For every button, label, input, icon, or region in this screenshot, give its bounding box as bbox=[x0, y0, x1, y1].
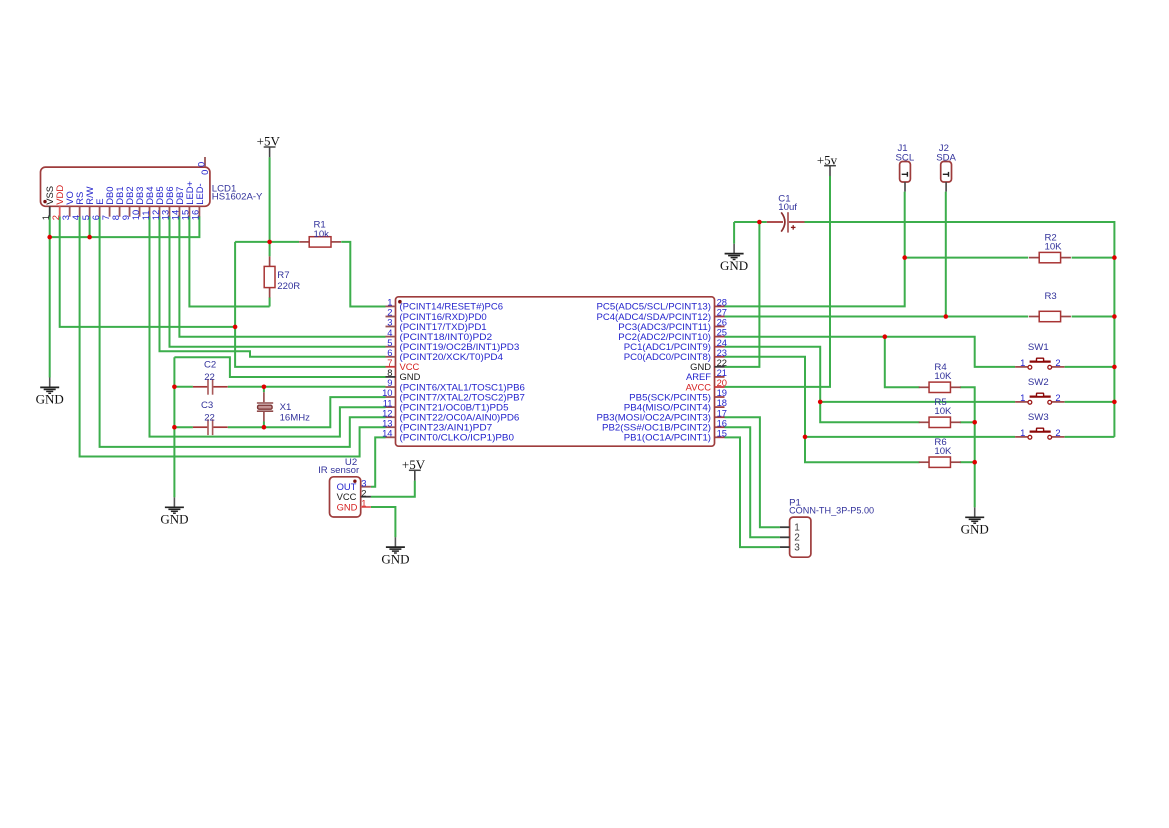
svg-text:1: 1 bbox=[361, 498, 366, 509]
svg-text:GND: GND bbox=[961, 522, 989, 537]
svg-text:0: 0 bbox=[195, 162, 206, 167]
svg-text:1: 1 bbox=[1020, 392, 1025, 403]
svg-text:+5v: +5v bbox=[817, 152, 838, 167]
svg-text:10uf: 10uf bbox=[778, 202, 797, 213]
svg-text:+5V: +5V bbox=[257, 134, 281, 149]
svg-text:10K: 10K bbox=[934, 371, 952, 382]
svg-text:1: 1 bbox=[1020, 357, 1025, 368]
svg-text:16MHz: 16MHz bbox=[280, 412, 311, 423]
svg-text:CONN-TH_3P-P5.00: CONN-TH_3P-P5.00 bbox=[789, 506, 874, 517]
svg-text:10K: 10K bbox=[934, 446, 952, 457]
svg-text:C3: C3 bbox=[201, 400, 213, 411]
svg-text:15: 15 bbox=[717, 427, 727, 438]
svg-text:2: 2 bbox=[1055, 392, 1060, 403]
svg-text:+5V: +5V bbox=[402, 457, 426, 472]
svg-text:0: 0 bbox=[199, 170, 210, 175]
svg-text:GND: GND bbox=[160, 512, 188, 527]
svg-text:GND: GND bbox=[381, 551, 409, 566]
svg-text:GND: GND bbox=[720, 258, 748, 273]
svg-text:SW2: SW2 bbox=[1028, 377, 1049, 388]
svg-text:220R: 220R bbox=[277, 281, 300, 292]
svg-text:IR sensor: IR sensor bbox=[318, 465, 360, 476]
svg-text:GND: GND bbox=[337, 501, 358, 512]
svg-text:X1: X1 bbox=[280, 402, 292, 413]
svg-text:1: 1 bbox=[1020, 427, 1025, 438]
svg-text:3: 3 bbox=[794, 543, 800, 554]
svg-text:10k: 10k bbox=[314, 229, 330, 240]
svg-text:SW1: SW1 bbox=[1028, 342, 1049, 353]
svg-text:14: 14 bbox=[382, 428, 392, 439]
svg-text:HS1602A-Y: HS1602A-Y bbox=[212, 191, 263, 202]
svg-text:10K: 10K bbox=[934, 406, 952, 417]
svg-text:2: 2 bbox=[1055, 427, 1060, 438]
svg-text:10K: 10K bbox=[1045, 242, 1063, 253]
svg-text:R7: R7 bbox=[277, 270, 289, 281]
svg-text:GND: GND bbox=[36, 392, 64, 407]
svg-text:C2: C2 bbox=[204, 359, 216, 370]
svg-text:R3: R3 bbox=[1045, 291, 1057, 302]
svg-text:PB1(OC1A/PCINT1): PB1(OC1A/PCINT1) bbox=[624, 432, 711, 443]
svg-text:SW3: SW3 bbox=[1028, 412, 1049, 423]
svg-text:22: 22 bbox=[204, 412, 215, 423]
svg-text:16: 16 bbox=[190, 210, 201, 220]
svg-text:LED-: LED- bbox=[194, 183, 205, 204]
svg-text:(PCINT0/CLKO/ICP1)PB0: (PCINT0/CLKO/ICP1)PB0 bbox=[400, 432, 515, 443]
svg-text:SDA: SDA bbox=[936, 152, 956, 163]
svg-text:2: 2 bbox=[1055, 357, 1060, 368]
svg-text:SCL: SCL bbox=[896, 152, 915, 163]
svg-text:22: 22 bbox=[204, 372, 215, 383]
